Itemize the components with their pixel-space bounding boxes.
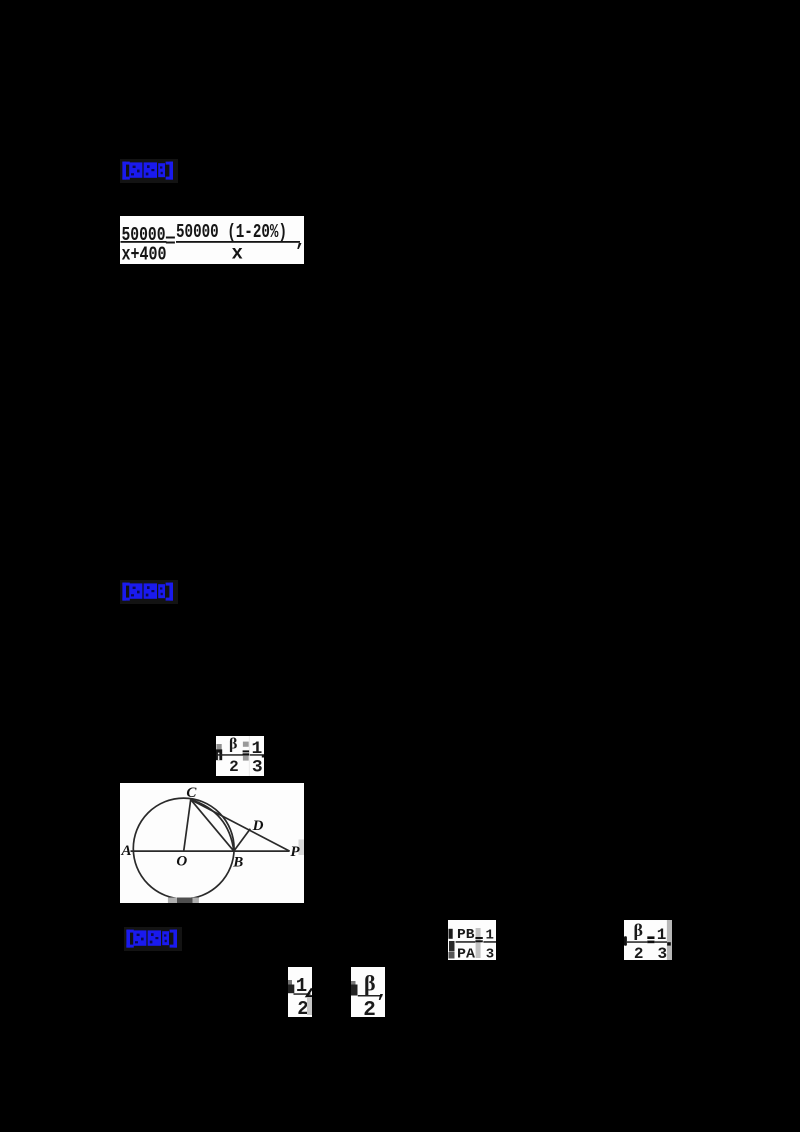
svg-text:,: ,: [295, 232, 304, 252]
svg-text:P: P: [290, 844, 300, 860]
svg-text:2: 2: [363, 999, 376, 1017]
svg-text:β: β: [229, 736, 237, 752]
svg-text:1: 1: [485, 927, 493, 943]
svg-text:C: C: [186, 785, 197, 801]
svg-text:3: 3: [657, 945, 667, 960]
svg-text:3: 3: [251, 757, 262, 776]
svg-text:B: B: [232, 855, 243, 871]
svg-text:=: =: [165, 233, 176, 253]
svg-text:O: O: [176, 854, 187, 870]
svg-text:50000 (1-20%): 50000 (1-20%): [176, 221, 287, 243]
svg-text:2: 2: [297, 998, 308, 1017]
svg-text:x: x: [232, 243, 243, 265]
svg-text:PB: PB: [457, 927, 475, 943]
svg-text:1: 1: [251, 739, 262, 759]
svg-text:1: 1: [657, 926, 667, 944]
svg-text:β: β: [364, 971, 376, 996]
svg-text:PA: PA: [457, 946, 476, 960]
svg-text:,: ,: [377, 983, 386, 1003]
svg-text:2: 2: [229, 758, 239, 776]
svg-text:β: β: [633, 920, 642, 940]
svg-text:A: A: [120, 843, 131, 859]
svg-text:2: 2: [634, 945, 644, 960]
svg-text:3: 3: [485, 946, 493, 960]
svg-text:D: D: [252, 818, 264, 834]
svg-text:x+400: x+400: [122, 244, 167, 265]
